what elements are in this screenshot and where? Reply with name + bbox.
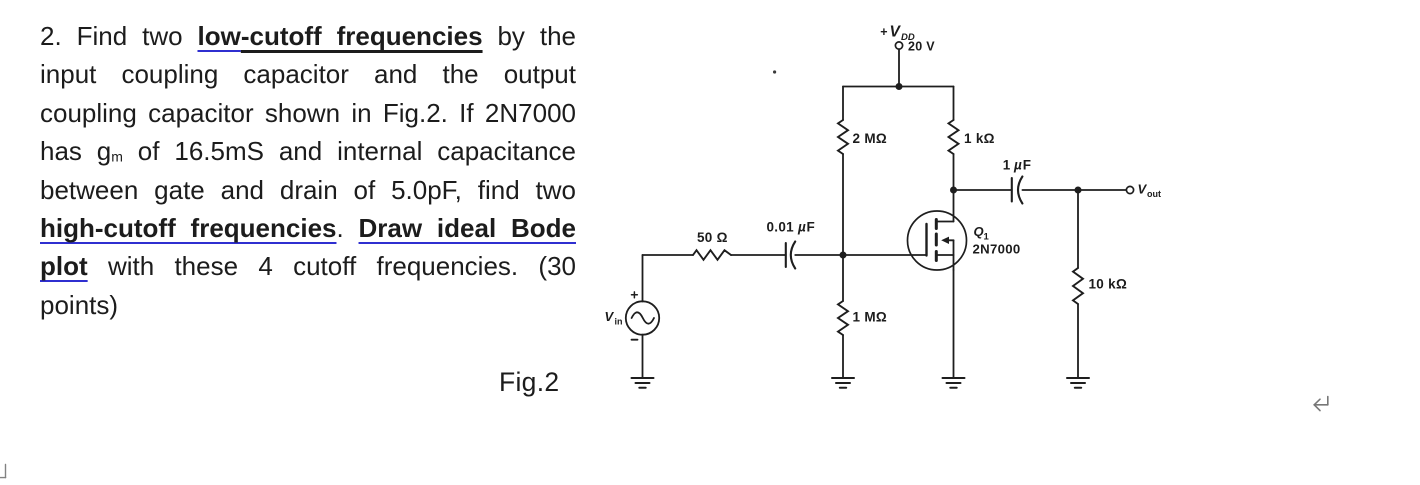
- svg-text:V: V: [890, 24, 902, 41]
- wire left branch upper: [842, 87, 844, 121]
- resistor 1 kΩ: [949, 120, 959, 154]
- svg-text:V: V: [1138, 182, 1148, 197]
- wire VDD stem: [898, 49, 900, 86]
- resistor 1 MΩ: [838, 301, 848, 335]
- wire signal path to 50Ω: [643, 254, 694, 256]
- svg-text:Q: Q: [974, 224, 984, 239]
- wire left branch lower: [842, 335, 844, 378]
- wire right branch to drain node: [953, 154, 955, 190]
- svg-text:2 MΩ: 2 MΩ: [853, 131, 888, 146]
- resistor 50 Ω: [693, 250, 731, 260]
- wire 10 kΩ to ground: [1077, 304, 1079, 378]
- capacitor 0.01 µF: [786, 242, 795, 269]
- wire capacitor to Vout: [1022, 189, 1126, 191]
- terminal Vout: [1126, 186, 1133, 193]
- node VDD rail junction: [896, 83, 903, 90]
- ground under 10 kΩ: [1067, 378, 1089, 388]
- resistor 10 kΩ: [1073, 268, 1083, 304]
- ground under 1 MΩ: [832, 378, 854, 388]
- svg-text:in: in: [615, 317, 623, 327]
- wire 50Ω to input capacitor: [731, 254, 786, 256]
- svg-text:1 MΩ: 1 MΩ: [853, 310, 888, 325]
- return mark: [1314, 397, 1328, 411]
- stray ink dot: [773, 70, 776, 73]
- wire gate lead: [843, 254, 927, 256]
- wire Vin up to signal path: [642, 255, 644, 302]
- svg-text:F: F: [1023, 158, 1031, 173]
- label Vin: [605, 309, 623, 327]
- wire drain node to output capacitor: [954, 189, 1012, 191]
- svg-text:1 kΩ: 1 kΩ: [964, 131, 995, 146]
- label 0.01 µF: [767, 220, 815, 235]
- wire Vin to ground: [642, 335, 644, 378]
- svg-text:F: F: [807, 220, 815, 235]
- svg-text:V: V: [605, 309, 615, 324]
- wire drain node into transistor: [953, 190, 955, 222]
- label minus polarity: [632, 339, 638, 341]
- svg-text:50 Ω: 50 Ω: [697, 230, 728, 245]
- source Vin: [626, 301, 659, 334]
- svg-text:20 V: 20 V: [908, 40, 935, 54]
- node gate junction: [840, 252, 847, 259]
- wire output junction down: [1077, 190, 1079, 268]
- ground under Vin: [632, 378, 654, 388]
- ground under transistor source: [943, 378, 965, 388]
- svg-text:+: +: [880, 25, 887, 39]
- node drain junction: [950, 187, 957, 194]
- node output junction: [1075, 187, 1082, 194]
- svg-text:µ: µ: [1013, 158, 1022, 173]
- corner bracket: [0, 465, 6, 478]
- svg-text:10 kΩ: 10 kΩ: [1089, 277, 1128, 292]
- transistor Q1 2N7000: [908, 211, 967, 270]
- power terminal VDD: [895, 42, 902, 49]
- svg-text:out: out: [1147, 189, 1161, 199]
- resistor 2 MΩ: [838, 120, 848, 154]
- svg-text:µ: µ: [797, 220, 806, 235]
- svg-text:2N7000: 2N7000: [973, 242, 1021, 257]
- label 1 µF: [1003, 158, 1031, 173]
- svg-text:1: 1: [1003, 158, 1011, 173]
- label Vout: [1138, 182, 1162, 200]
- wire top rail: [843, 86, 954, 88]
- wire left branch middle: [842, 154, 844, 301]
- label Q1: [974, 224, 990, 243]
- wire input capacitor to gate node: [795, 254, 843, 256]
- label +VDD: [880, 24, 915, 43]
- capacitor 1 µF: [1012, 177, 1023, 204]
- wire right branch upper: [953, 87, 955, 121]
- wire source to ground: [953, 270, 955, 378]
- svg-text:0.01: 0.01: [767, 220, 795, 235]
- label plus polarity: [632, 292, 638, 298]
